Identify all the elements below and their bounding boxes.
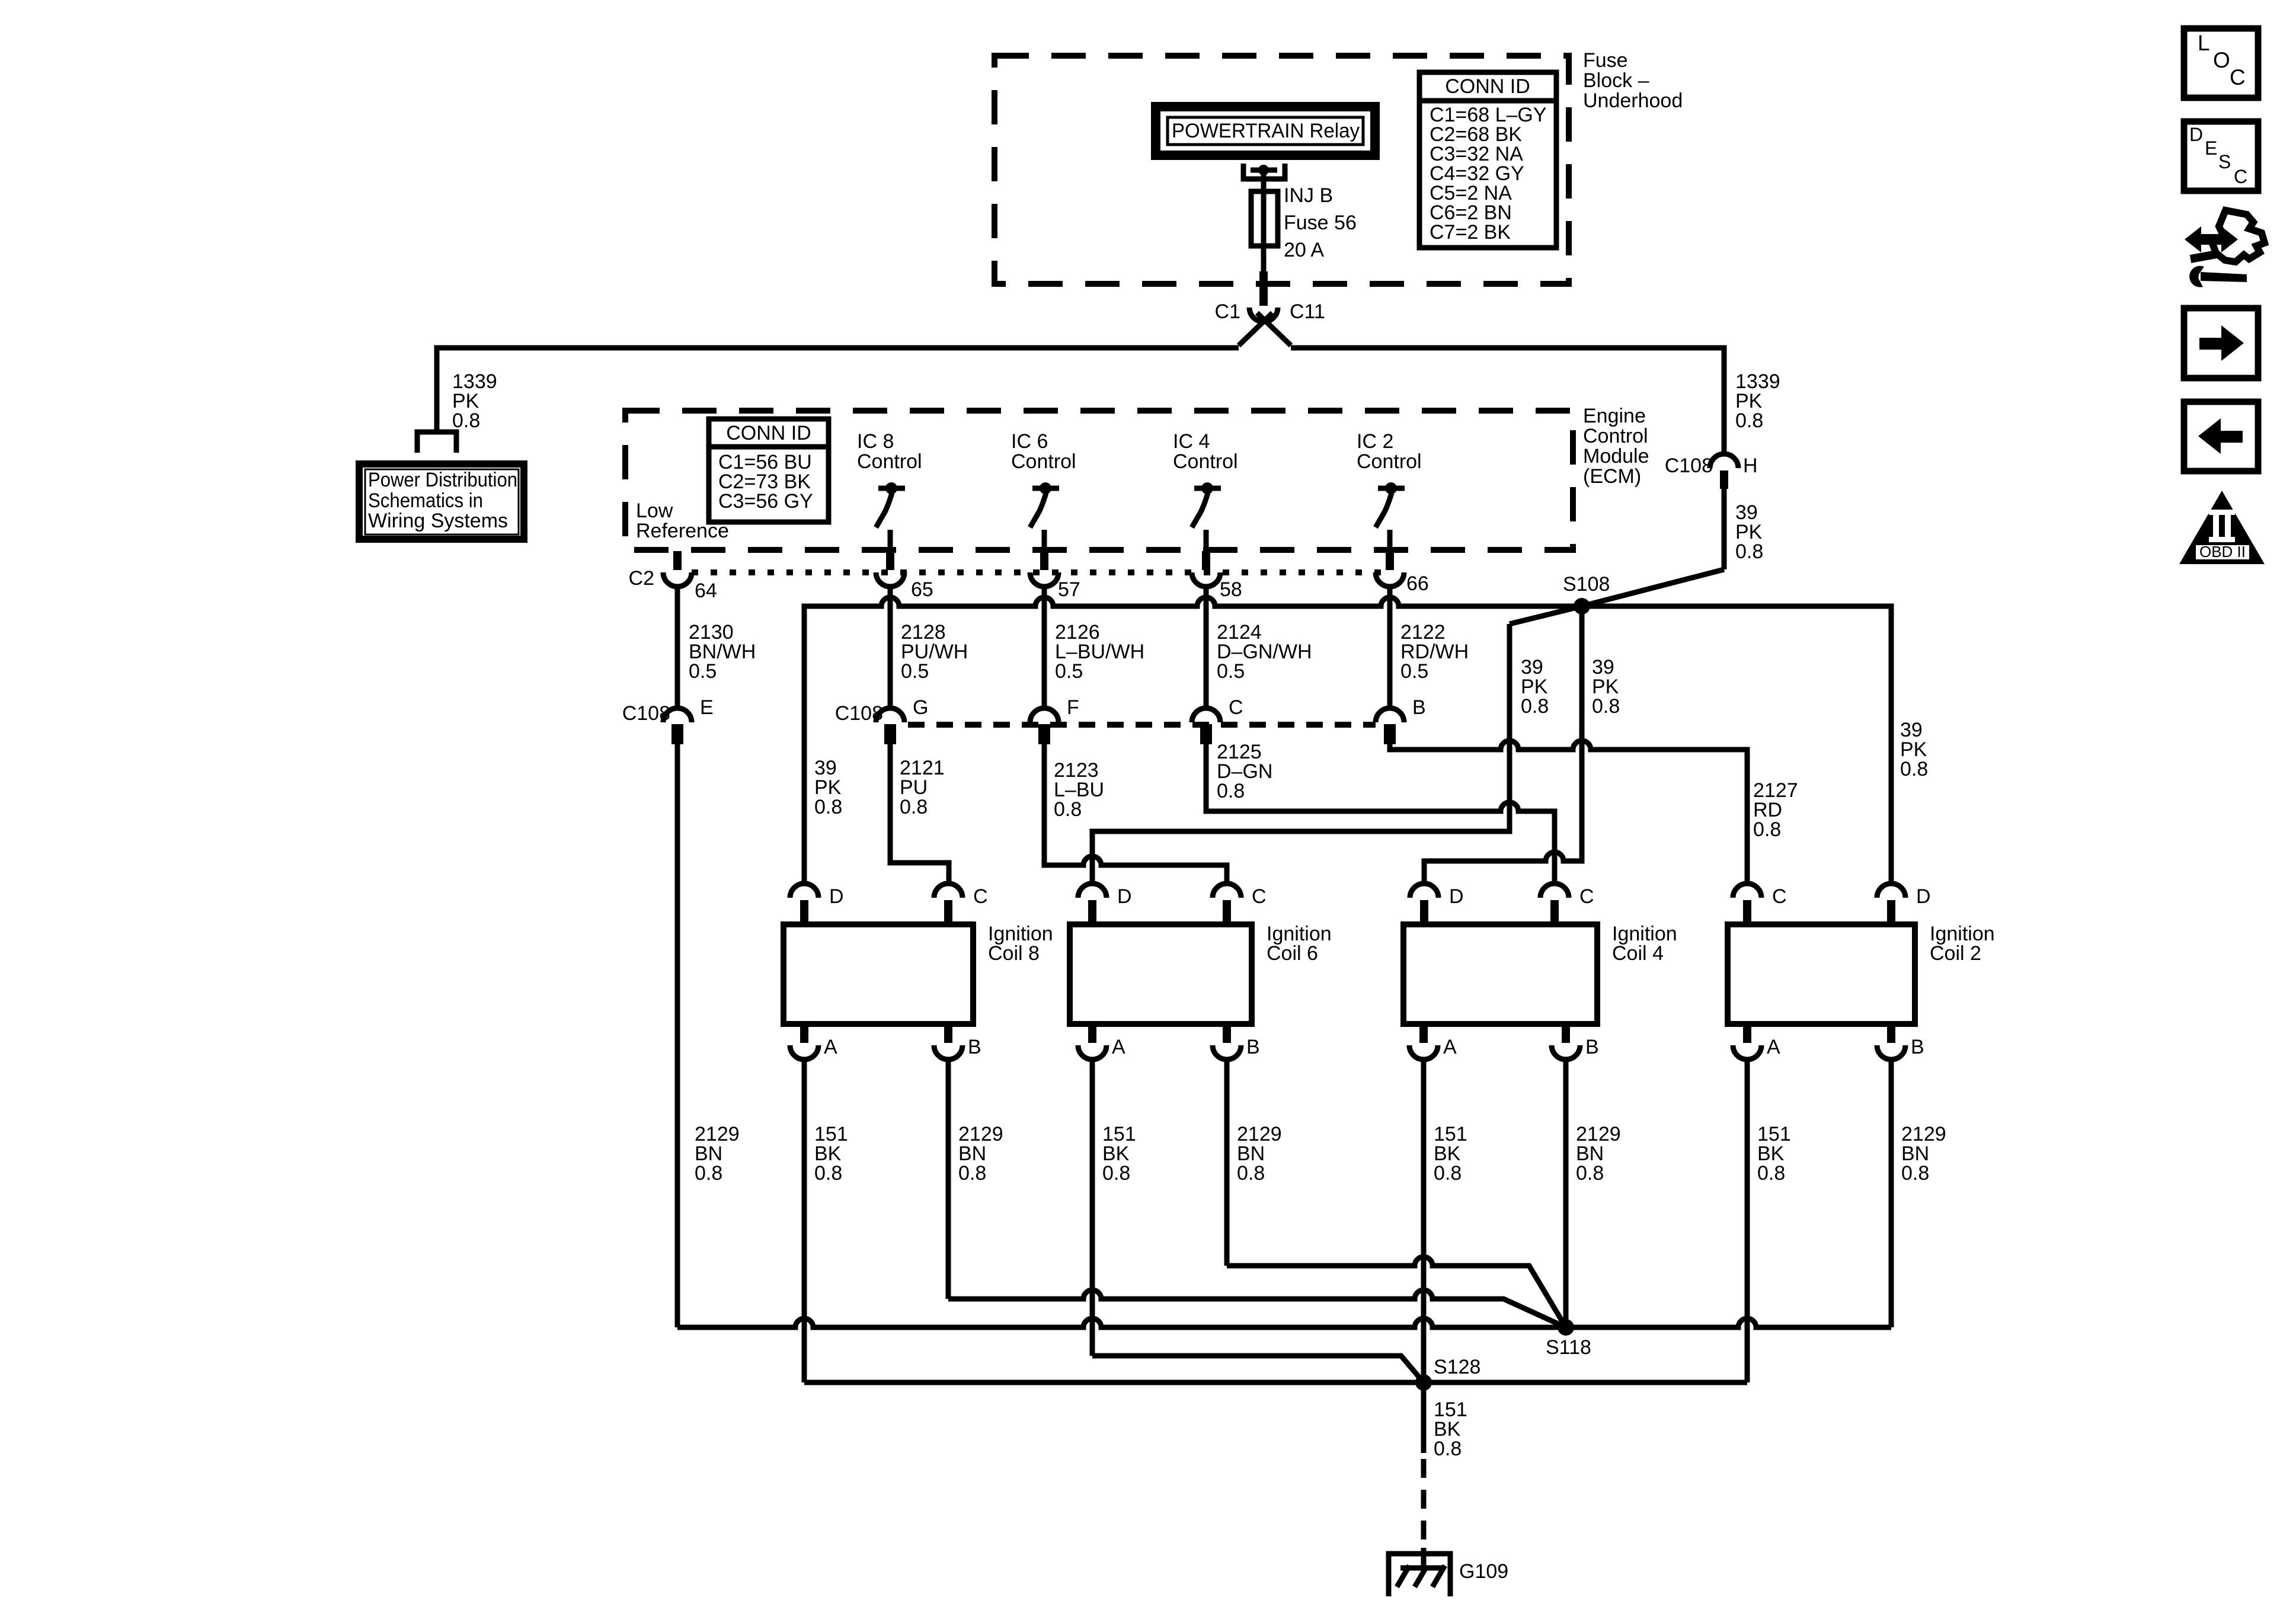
- svg-text:C108: C108: [622, 702, 670, 725]
- svg-text:Underhood: Underhood: [1583, 89, 1683, 112]
- ignition coil 6 bottom pin A connector: [1078, 1024, 1107, 1060]
- coil 6 pin C letter: [1252, 885, 1267, 908]
- connector C2 label: [629, 567, 654, 590]
- svg-text:C7=2 BK: C7=2 BK: [1430, 221, 1511, 244]
- svg-text:C: C: [973, 885, 988, 908]
- label 2129 BN 0.8: [958, 1123, 1003, 1185]
- S128 label: [1434, 1356, 1480, 1378]
- svg-text:0.8: 0.8: [1434, 1438, 1462, 1460]
- label 39 PK 0.8 (S108 down leg): [1592, 656, 1620, 718]
- coil 4 pin D letter: [1449, 885, 1464, 908]
- coil 2 pin D letter: [1916, 885, 1931, 908]
- svg-text:Low: Low: [636, 500, 673, 522]
- fuse block underhood dashed outline: [994, 56, 1569, 284]
- coil 6 pin B letter: [1246, 1036, 1260, 1058]
- pin F letter: [1067, 696, 1079, 719]
- svg-text:0.8: 0.8: [958, 1162, 986, 1185]
- wire 151 BK coil4 A down: [1421, 1060, 1427, 1382]
- ignition coil 4 label: [1612, 923, 1677, 965]
- svg-text:D: D: [1449, 885, 1464, 908]
- svg-text:C3=56 GY: C3=56 GY: [718, 490, 813, 513]
- ignition coil 4 top pin D connector: [1410, 884, 1438, 924]
- off-page bracket to power distribution: [417, 432, 456, 453]
- wire 2129 BN coil8 B to S118: [948, 1290, 1566, 1327]
- wire fuse to connector C1/C11: [1261, 246, 1267, 274]
- svg-text:A: A: [1112, 1036, 1125, 1058]
- IC 6 Control driver switch: [1011, 430, 1076, 550]
- pin B letter: [1412, 696, 1426, 719]
- wire 1339 PK bus left segment: [437, 348, 1239, 433]
- coil 6 pin D letter: [1117, 885, 1132, 908]
- svg-text:Power Distribution: Power Distribution: [368, 469, 517, 491]
- coil 4 pin C letter: [1579, 885, 1594, 908]
- wire 2129 BN from C108 E down to low-ref bus: [675, 744, 680, 1327]
- ignition coil 2 top pin C connector: [1733, 884, 1761, 924]
- svg-text:D: D: [2189, 124, 2203, 145]
- svg-text:CONN ID: CONN ID: [1445, 75, 1530, 98]
- svg-text:0.8: 0.8: [695, 1162, 722, 1185]
- svg-text:0.5: 0.5: [1217, 660, 1245, 683]
- fuse block label: [1583, 49, 1683, 112]
- ignition coil 8 top pin D connector: [790, 884, 818, 924]
- wire 2121 PU to coil8 C: [890, 744, 949, 884]
- svg-text:0.8: 0.8: [1576, 1162, 1604, 1185]
- svg-text:E: E: [700, 696, 714, 719]
- svg-text:O: O: [2213, 48, 2230, 72]
- svg-text:Wiring Systems: Wiring Systems: [368, 510, 508, 532]
- svg-text:Fuse 56: Fuse 56: [1284, 212, 1357, 234]
- label 151 BK 0.8: [814, 1123, 848, 1185]
- pin 65 number: [911, 578, 933, 601]
- connector C108 pin B: [1376, 708, 1404, 744]
- svg-text:57: 57: [1058, 578, 1080, 601]
- svg-text:C: C: [2230, 65, 2246, 89]
- pin 57 number: [1058, 578, 1080, 601]
- pin 64 number: [695, 580, 717, 602]
- svg-text:Control: Control: [857, 450, 922, 473]
- svg-text:0.8: 0.8: [1735, 540, 1763, 563]
- svg-text:B: B: [1911, 1036, 1924, 1058]
- coil 6 pin A letter: [1112, 1036, 1125, 1058]
- svg-text:B: B: [968, 1036, 981, 1058]
- ECM pin 65 connector: [876, 551, 904, 587]
- S108 label: [1563, 573, 1610, 596]
- svg-text:0.5: 0.5: [689, 660, 717, 683]
- ignition coil 8 top pin C connector: [934, 884, 962, 924]
- wire 151 BK coil6 A down: [1090, 1060, 1095, 1356]
- svg-text:B: B: [1585, 1036, 1599, 1058]
- label 151 BK 0.8: [1757, 1123, 1791, 1185]
- coil 2 pin A letter: [1767, 1036, 1780, 1058]
- svg-text:0.8: 0.8: [900, 796, 928, 818]
- wire 2129 BN low reference bus: [677, 1318, 1891, 1327]
- svg-text:G: G: [913, 696, 928, 719]
- svg-text:0.8: 0.8: [1054, 798, 1082, 821]
- relay K: POWERTRAIN Relay box: [1156, 107, 1375, 155]
- svg-text:Coil 8: Coil 8: [988, 942, 1040, 965]
- label 151 BK 0.8 (to ground): [1434, 1398, 1467, 1460]
- svg-text:0.8: 0.8: [1434, 1162, 1462, 1185]
- wire 2128 PU/WH: [888, 587, 893, 708]
- label 2125 D-GN 0.8: [1217, 741, 1272, 802]
- ignition coil 4 box: [1403, 924, 1597, 1024]
- pin H letter: [1743, 454, 1758, 477]
- svg-text:66: 66: [1406, 572, 1429, 595]
- svg-text:POWERTRAIN Relay: POWERTRAIN Relay: [1172, 120, 1360, 142]
- svg-text:20 A: 20 A: [1284, 239, 1324, 261]
- ignition coil 2 label: [1930, 923, 1995, 965]
- svg-text:Control: Control: [1583, 425, 1648, 447]
- coil 2 pin B letter: [1911, 1036, 1924, 1058]
- svg-text:S108: S108: [1563, 573, 1610, 596]
- ignition coil 6 bottom pin B connector: [1213, 1024, 1241, 1060]
- label 1339 PK 0.8 (left): [452, 370, 497, 432]
- svg-text:0.8: 0.8: [1592, 695, 1620, 718]
- svg-text:0.8: 0.8: [814, 796, 842, 818]
- svg-text:C2: C2: [629, 567, 654, 590]
- svg-text:S: S: [2218, 151, 2231, 172]
- wire 39 PK C108 H to S108: [1582, 486, 1724, 606]
- label 2121 PU 0.8: [900, 757, 945, 818]
- svg-text:58: 58: [1220, 578, 1242, 601]
- node C1 label: [1215, 300, 1240, 323]
- fuse label INJ B / Fuse 56 / 20 A: [1284, 184, 1357, 261]
- svg-text:0.8: 0.8: [1753, 818, 1781, 841]
- ECM pin 66 connector: [1376, 551, 1404, 587]
- svg-text:Module: Module: [1583, 445, 1649, 468]
- ignition coil 4 bottom pin A connector: [1409, 1024, 1438, 1060]
- ignition coil 6 box: [1070, 924, 1252, 1024]
- svg-text:INJ B: INJ B: [1284, 184, 1333, 207]
- label 2122 RD/WH 0.5: [1400, 621, 1469, 683]
- label 39 PK 0.8 (below C108 H): [1735, 501, 1763, 563]
- label 39 PK 0.8 (coil8 D): [814, 757, 842, 818]
- coil 8 pin B letter: [968, 1036, 981, 1058]
- wire 2129 BN coil4 B down to S118: [1563, 1060, 1569, 1327]
- coil 8 pin A letter: [824, 1036, 837, 1058]
- pin 66 number: [1406, 572, 1429, 595]
- ignition coil 4 bottom pin B connector: [1552, 1024, 1580, 1060]
- pin E letter: [700, 696, 714, 719]
- label 2128 PU/WH 0.5: [901, 621, 968, 683]
- svg-text:G109: G109: [1459, 1560, 1508, 1583]
- C108 label (G): [835, 702, 883, 725]
- svg-text:C: C: [1229, 696, 1243, 719]
- svg-text:Control: Control: [1357, 450, 1422, 473]
- connector row dashed line (C108 G-B): [908, 722, 1376, 728]
- svg-text:A: A: [1443, 1036, 1457, 1058]
- svg-text:(ECM): (ECM): [1583, 465, 1641, 488]
- svg-text:0.8: 0.8: [1237, 1162, 1265, 1185]
- relay output pin holder symbol: [1243, 164, 1285, 179]
- svg-text:E: E: [2205, 137, 2217, 159]
- ignition coil 8 label: [988, 923, 1053, 965]
- label 2127 RD 0.8: [1753, 779, 1798, 841]
- svg-text:C: C: [1579, 885, 1594, 908]
- svg-text:H: H: [1743, 454, 1758, 477]
- coil 4 pin B letter: [1585, 1036, 1599, 1058]
- ignition coil 6 label: [1267, 923, 1332, 965]
- wire 151 BK coil2 A down: [1745, 1060, 1750, 1382]
- svg-text:Coil 2: Coil 2: [1930, 942, 1981, 965]
- svg-text:C11: C11: [1290, 300, 1325, 323]
- splice S108: [1574, 598, 1590, 614]
- svg-text:Coil 6: Coil 6: [1267, 942, 1318, 965]
- svg-text:L: L: [2198, 31, 2210, 55]
- svg-text:A: A: [1767, 1036, 1780, 1058]
- svg-text:Coil 4: Coil 4: [1612, 942, 1664, 965]
- svg-text:Schematics in: Schematics in: [368, 489, 483, 512]
- svg-text:0.8: 0.8: [1901, 1162, 1929, 1185]
- coil 8 pin D letter: [829, 885, 844, 908]
- svg-text:IC 2: IC 2: [1357, 430, 1393, 453]
- svg-text:C: C: [1252, 885, 1267, 908]
- icon OBD II: [2179, 491, 2265, 564]
- icon forward arrow: [2184, 308, 2258, 378]
- svg-text:C108: C108: [835, 702, 883, 725]
- label 2129 BN 0.8: [1576, 1123, 1621, 1185]
- wire 2129 BN coil6 B to S118: [1227, 1257, 1566, 1327]
- ignition coil 2 bottom pin B connector: [1877, 1024, 1905, 1060]
- label 2129 BN 0.8: [695, 1123, 740, 1185]
- wire 39 PK S108 diagonal to left branch: [1092, 606, 1582, 884]
- svg-text:0.8: 0.8: [1217, 780, 1245, 802]
- ECM dashed outline: [625, 411, 1573, 550]
- ignition coil 6 top pin D connector: [1078, 884, 1107, 924]
- label 39 PK 0.8 (S108 left leg): [1521, 656, 1549, 718]
- wire 151 BK S128 to G109: [1421, 1382, 1427, 1569]
- svg-text:Block –: Block –: [1583, 69, 1649, 92]
- wire 151 BK coil6 A to S128: [1092, 1356, 1424, 1382]
- wire 2124 D–GN/WH: [1204, 587, 1209, 708]
- IC 4 Control driver switch: [1173, 430, 1238, 550]
- wire 2129 BN coil6 B down: [1224, 1060, 1230, 1266]
- svg-text:64: 64: [695, 580, 717, 602]
- node C11 label: [1290, 300, 1325, 323]
- IC 2 Control driver switch: [1357, 430, 1422, 550]
- wire 39 PK bus from coil8 D to coil2 D via S108: [804, 597, 1891, 884]
- ECM pin 64 connector: [663, 551, 692, 587]
- connector C108 pin C: [1192, 708, 1220, 744]
- svg-text:C1: C1: [1215, 300, 1240, 323]
- splice S128: [1415, 1374, 1432, 1391]
- label 151 BK 0.8: [1434, 1123, 1467, 1185]
- label 151 BK 0.8: [1102, 1123, 1136, 1185]
- wire 2126 L–BU/WH: [1042, 587, 1047, 708]
- label 2126 L–BU/WH 0.5: [1055, 621, 1144, 683]
- pin 58 number: [1220, 578, 1242, 601]
- C108 label (H): [1665, 454, 1713, 477]
- label 39 PK 0.8 (far right, coil2 D): [1900, 719, 1928, 780]
- Low Reference label: [636, 500, 729, 542]
- wire 2122 RD/WH: [1387, 587, 1393, 708]
- IC 8 Control driver switch: [857, 430, 922, 550]
- splice S118: [1558, 1319, 1574, 1336]
- svg-text:0.8: 0.8: [1757, 1162, 1785, 1185]
- wire 2123 L-BU to coil6 C: [1044, 744, 1227, 884]
- ECM label: [1583, 405, 1649, 488]
- label 1339 PK 0.8 (right): [1735, 370, 1780, 432]
- svg-text:0.8: 0.8: [1735, 409, 1763, 432]
- wire 2129 BN coil8 B down: [946, 1060, 951, 1299]
- wire relay to fuse: [1261, 170, 1267, 191]
- label 2129 BN 0.8: [1237, 1123, 1282, 1185]
- wire 151 BK ground bus: [804, 1380, 1747, 1385]
- svg-text:65: 65: [911, 578, 933, 601]
- svg-text:OBD II: OBD II: [2199, 543, 2246, 561]
- connector C108 pin E: [663, 708, 692, 744]
- wire 39 PK S108 down branch to coil4 D: [1424, 606, 1582, 884]
- svg-text:D: D: [1117, 885, 1132, 908]
- icon DESC: [2184, 121, 2258, 191]
- svg-text:C108: C108: [1665, 454, 1713, 477]
- C108 label (E): [622, 702, 670, 725]
- svg-text:CONN ID: CONN ID: [726, 422, 811, 444]
- coil 2 pin C letter: [1772, 885, 1787, 908]
- ECM pin 58 connector: [1192, 551, 1220, 587]
- ignition coil 8 bottom pin B connector: [934, 1024, 962, 1060]
- svg-text:Control: Control: [1011, 450, 1076, 473]
- inline connector C1/C11: [1239, 271, 1291, 345]
- wire 2127 RD to coil2 C: [1390, 741, 1747, 884]
- connector C108 pin G: [876, 708, 904, 744]
- icon connector-repair (arrow glove wrench): [2185, 210, 2265, 287]
- icon back arrow: [2184, 402, 2258, 471]
- coil 4 pin A letter: [1443, 1036, 1457, 1058]
- wire 2130 BN/WH pin64 to C108 E: [675, 587, 680, 708]
- connector C108 pin H: [1710, 454, 1738, 489]
- svg-text:D: D: [829, 885, 844, 908]
- ignition coil 2 bottom pin A connector: [1733, 1024, 1761, 1060]
- svg-text:0.8: 0.8: [1521, 695, 1549, 718]
- svg-text:F: F: [1067, 696, 1079, 719]
- ignition coil 2 box: [1728, 924, 1915, 1024]
- connector C108 pin F: [1030, 708, 1059, 744]
- svg-text:IC 8: IC 8: [857, 430, 894, 453]
- svg-text:S118: S118: [1546, 1336, 1591, 1359]
- svg-text:0.5: 0.5: [901, 660, 929, 683]
- svg-text:Control: Control: [1173, 450, 1238, 473]
- svg-text:IC 4: IC 4: [1173, 430, 1210, 453]
- svg-text:C: C: [2234, 166, 2247, 187]
- icon LOC: [2184, 28, 2258, 98]
- svg-text:B: B: [1412, 696, 1426, 719]
- G109 label: [1459, 1560, 1508, 1583]
- svg-text:0.8: 0.8: [814, 1162, 842, 1185]
- svg-text:IC 6: IC 6: [1011, 430, 1048, 453]
- wire 2125 D-GN to coil4 C: [1206, 744, 1555, 884]
- ground G109: [1389, 1554, 1450, 1596]
- svg-text:0.8: 0.8: [1102, 1162, 1130, 1185]
- pin C letter: [1229, 696, 1243, 719]
- S118 label: [1546, 1336, 1591, 1359]
- svg-text:0.8: 0.8: [452, 409, 480, 432]
- svg-text:Fuse: Fuse: [1583, 49, 1628, 72]
- ignition coil 4 top pin C connector: [1540, 884, 1569, 924]
- svg-text:Reference: Reference: [636, 520, 729, 542]
- CONN ID table (ECM): [709, 419, 829, 522]
- fuse 56 (INJ B, 20 A): [1251, 191, 1278, 246]
- label 2124 D–GN/WH 0.5: [1217, 621, 1312, 683]
- svg-text:0.5: 0.5: [1400, 660, 1428, 683]
- label 2130 BN/WH 0.5: [689, 621, 756, 683]
- coil 8 pin C letter: [973, 885, 988, 908]
- wire 2129 BN coil2 B down: [1889, 1060, 1894, 1327]
- pin G letter: [913, 696, 928, 719]
- power distribution reference box: [359, 464, 524, 539]
- svg-text:0.8: 0.8: [1900, 758, 1928, 780]
- wire 1339 PK bus right segment: [1291, 348, 1724, 454]
- svg-text:B: B: [1246, 1036, 1260, 1058]
- ECM pin 57 connector: [1030, 551, 1059, 587]
- connector row dotted line (C2): [692, 569, 1390, 575]
- svg-text:0.5: 0.5: [1055, 660, 1083, 683]
- CONN ID table (fuse block): [1419, 72, 1556, 248]
- svg-text:D: D: [1916, 885, 1931, 908]
- wire 151 BK coil8 A down: [802, 1060, 807, 1382]
- svg-text:Engine: Engine: [1583, 405, 1646, 427]
- svg-text:C: C: [1772, 885, 1787, 908]
- svg-text:A: A: [824, 1036, 837, 1058]
- svg-text:S128: S128: [1434, 1356, 1480, 1378]
- ignition coil 2 top pin D connector: [1877, 884, 1905, 924]
- label 2123 L-BU 0.8: [1054, 759, 1104, 821]
- label 2129 BN 0.8: [1901, 1123, 1946, 1185]
- ignition coil 6 top pin C connector: [1213, 884, 1241, 924]
- ignition coil 8 bottom pin A connector: [790, 1024, 818, 1060]
- ignition coil 8 box: [784, 924, 973, 1024]
